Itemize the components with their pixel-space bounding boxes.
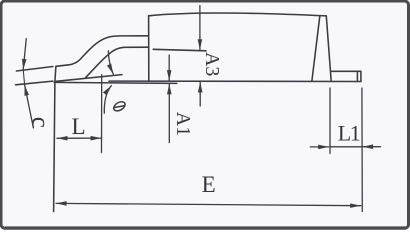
svg-text:E: E <box>202 172 216 197</box>
svg-text:A3: A3 <box>201 52 223 76</box>
svg-text:L: L <box>71 114 85 139</box>
svg-text:c: c <box>27 117 54 128</box>
svg-text:A1: A1 <box>172 112 194 136</box>
svg-text:L1: L1 <box>338 121 360 146</box>
